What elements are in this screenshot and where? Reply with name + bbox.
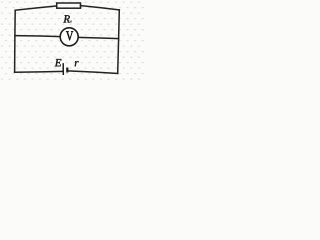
wire bottom-right segment bbox=[68, 71, 118, 74]
stray mark above voltmeter bbox=[68, 20, 71, 22]
voltmeter U1 circle bbox=[60, 28, 78, 46]
resistor R1 value label R bbox=[63, 15, 70, 22]
wire middle-left segment bbox=[15, 36, 60, 37]
wire right vertical bbox=[118, 10, 120, 74]
wire bottom-left segment bbox=[15, 70, 63, 73]
battery label E bbox=[55, 59, 62, 66]
wire left vertical bbox=[14, 10, 17, 72]
wire top-right segment bbox=[81, 6, 120, 10]
battery E long plate bbox=[62, 63, 64, 75]
voltmeter U1 letter V bbox=[66, 31, 73, 40]
resistor R1 box bbox=[57, 3, 81, 8]
wire middle-right segment bbox=[78, 37, 118, 38]
battery internal resistance label r bbox=[75, 61, 79, 66]
wire top-left segment bbox=[15, 6, 56, 10]
battery E short thick plate bbox=[66, 68, 68, 73]
